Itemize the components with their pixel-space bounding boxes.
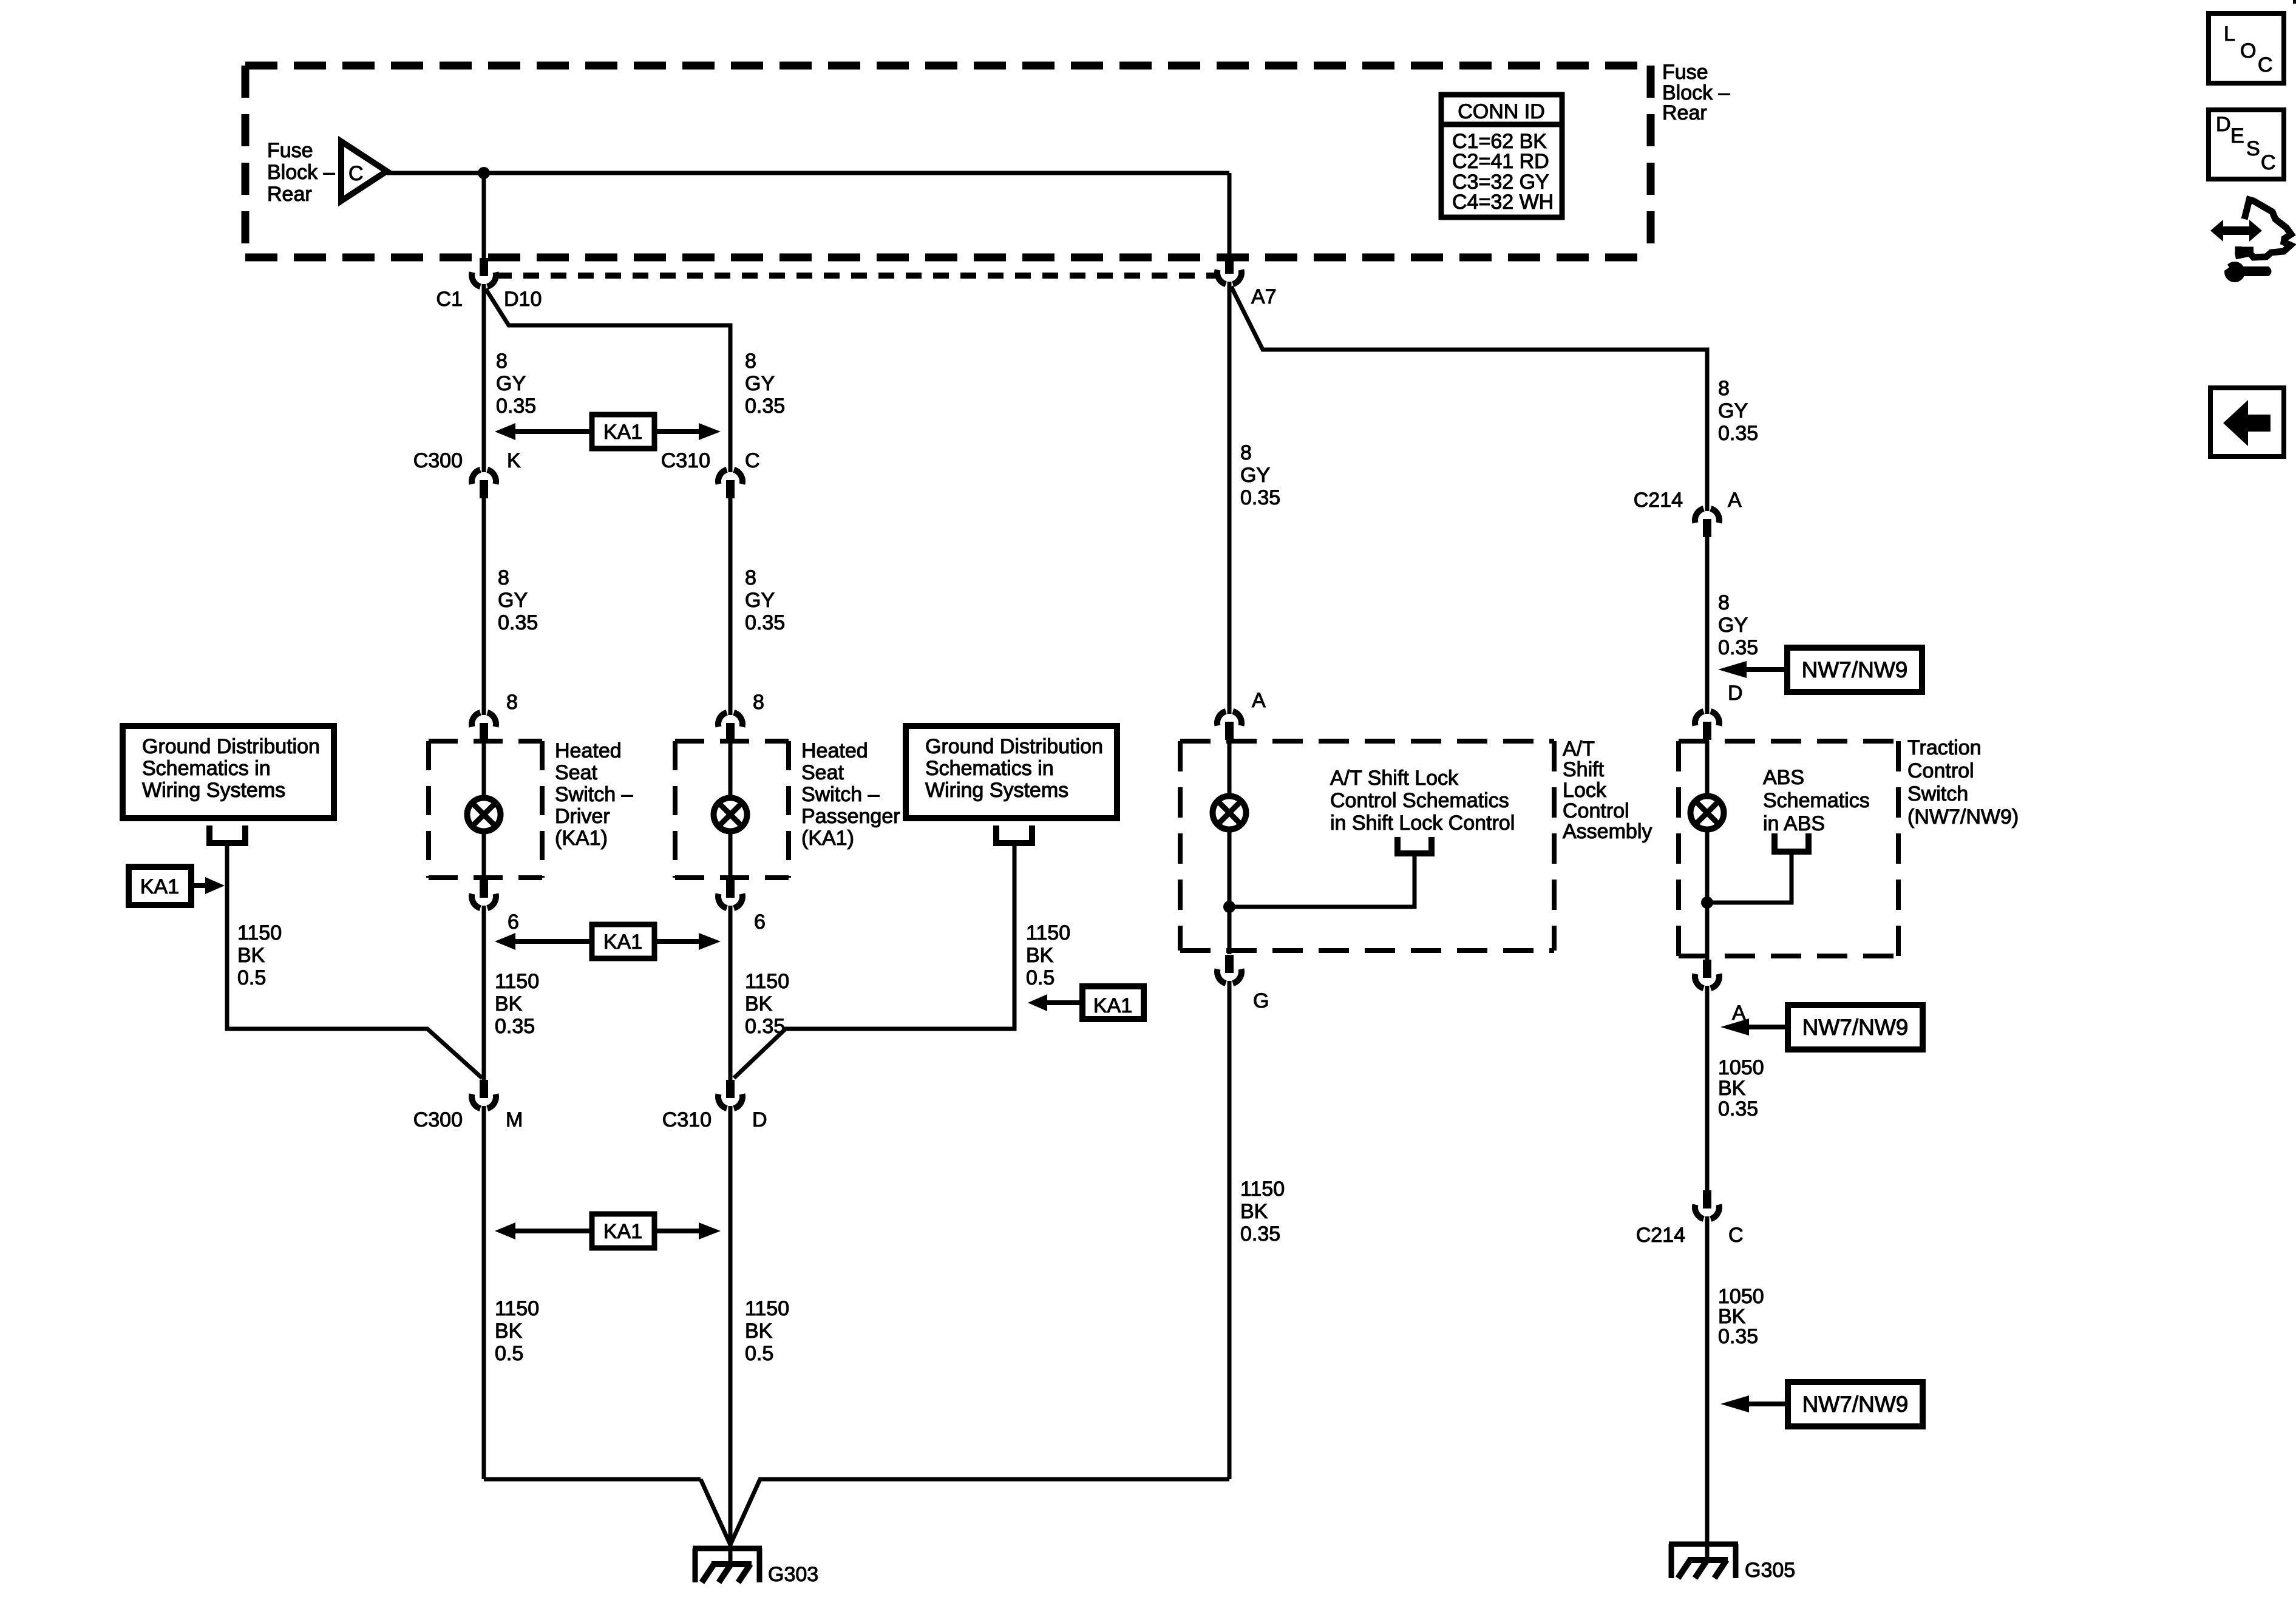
wire bracket to junction (A/T) <box>1229 856 1415 907</box>
svg-text:Control Schematics: Control Schematics <box>1330 789 1509 812</box>
label 1050 BK 0.35 (traction ground lower) <box>1718 1285 1764 1348</box>
svg-text:1150: 1150 <box>1240 1178 1285 1201</box>
wire C300 K to driver switch pin 8 <box>482 498 486 715</box>
svg-text:8: 8 <box>745 566 756 589</box>
svg-text:GY: GY <box>496 372 526 395</box>
svg-text:8: 8 <box>1718 377 1730 400</box>
svg-text:BK: BK <box>1240 1200 1268 1223</box>
bracket under left GD box <box>206 825 248 843</box>
wire inside A/T box (lamp to bottom) <box>1228 829 1232 954</box>
svg-text:0.5: 0.5 <box>745 1342 773 1365</box>
svg-text:Traction: Traction <box>1907 736 1982 759</box>
svg-text:1150: 1150 <box>745 970 789 993</box>
svg-text:BK: BK <box>1026 944 1054 967</box>
label 8 GY 0.35 (driver feed lower) <box>498 566 538 634</box>
svg-text:6: 6 <box>508 910 519 934</box>
wire branch D10 to passenger drop <box>486 289 730 472</box>
svg-text:S: S <box>2246 137 2260 160</box>
svg-text:0.35: 0.35 <box>495 1015 535 1038</box>
label C214 (A row) <box>1634 489 1683 512</box>
svg-text:Schematics: Schematics <box>1763 789 1870 812</box>
splice KA1 (middle) <box>495 924 721 958</box>
wire A/T G to ground bus <box>1228 981 1232 1479</box>
junction node on feed wire <box>478 167 490 179</box>
connector pin G A/T assembly <box>1217 955 1241 983</box>
reference KA1 (right) <box>1028 986 1144 1019</box>
label pin 6 (passenger) <box>754 910 766 934</box>
connector C310 pin D <box>718 1080 742 1108</box>
label 1150 BK 0.5 (driver ground lower) <box>495 1297 539 1365</box>
page corner mark <box>2293 0 2296 4</box>
svg-text:0.35: 0.35 <box>1718 422 1758 445</box>
label A/T Shift Lock Control Schematics in Shift Lock Control <box>1330 767 1515 835</box>
wire C214 C to G305 <box>1705 1216 1710 1561</box>
label Traction Control Switch (NW7/NW9) <box>1907 736 2019 829</box>
svg-text:NW7/NW9: NW7/NW9 <box>1802 1392 1909 1417</box>
svg-text:1150: 1150 <box>495 970 539 993</box>
label pin 6 (driver) <box>508 910 519 934</box>
svg-text:NW7/NW9: NW7/NW9 <box>1802 1015 1909 1040</box>
reference box Ground Distribution (right) <box>906 726 1117 818</box>
connector C1 pin D10 <box>472 258 496 286</box>
svg-text:Rear: Rear <box>267 183 312 206</box>
label 1150 BK 0.5 (right GD wire) <box>1026 921 1070 989</box>
svg-text:A: A <box>1728 489 1742 512</box>
svg-text:Lock: Lock <box>1563 779 1607 802</box>
connector pin A traction switch <box>1695 960 1719 988</box>
wire branch A7 to traction drop <box>1231 286 1707 511</box>
label 8 GY 0.35 (traction feed upper) <box>1718 377 1758 445</box>
connector C214 pin C <box>1695 1190 1719 1219</box>
svg-text:C310: C310 <box>661 449 710 472</box>
label 8 GY 0.35 (passenger feed upper) <box>745 350 785 418</box>
wire inside passenger switch (top) <box>729 741 733 799</box>
junction node A/T <box>1223 901 1235 913</box>
svg-text:NW7/NW9: NW7/NW9 <box>1802 657 1908 682</box>
bracket under right GD box <box>993 825 1035 843</box>
indicator lamp passenger switch <box>714 798 747 832</box>
svg-text:0.5: 0.5 <box>1026 966 1055 989</box>
svg-text:1150: 1150 <box>495 1297 539 1320</box>
svg-text:6: 6 <box>754 910 766 934</box>
label K <box>507 449 521 472</box>
svg-text:8: 8 <box>1240 441 1252 464</box>
svg-text:Fuse: Fuse <box>267 139 313 162</box>
label C1 <box>436 288 463 311</box>
svg-text:BK: BK <box>495 992 523 1015</box>
label C310 (C row) <box>661 449 710 472</box>
label 1150 BK 0.35 (A/T ground) <box>1240 1178 1285 1246</box>
wire driver pin 6 to C300 M <box>482 906 486 1080</box>
svg-text:D: D <box>752 1108 767 1131</box>
connector C300 pin K <box>472 470 496 498</box>
wire C214 A to traction pin D <box>1705 537 1710 714</box>
svg-text:E: E <box>2230 124 2244 147</box>
svg-text:C214: C214 <box>1636 1224 1685 1247</box>
wire inside A/T box (top) <box>1228 741 1232 797</box>
svg-text:Seat: Seat <box>801 761 844 784</box>
svg-text:8: 8 <box>753 691 764 714</box>
label 1150 BK 0.5 (left GD wire) <box>237 921 282 989</box>
icon back arrow button <box>2210 388 2284 456</box>
svg-text:C1: C1 <box>436 288 463 311</box>
svg-text:0.5: 0.5 <box>495 1342 523 1365</box>
label pin 8 (passenger switch) <box>753 691 764 714</box>
svg-text:8: 8 <box>498 566 509 589</box>
svg-text:8: 8 <box>745 350 756 373</box>
label A/T Shift Lock Control Assembly <box>1563 737 1652 843</box>
ground G303 <box>693 1548 762 1582</box>
svg-text:0.35: 0.35 <box>1240 1222 1280 1246</box>
svg-text:K: K <box>507 449 521 472</box>
svg-text:(KA1): (KA1) <box>555 827 608 850</box>
svg-text:O: O <box>2240 39 2256 63</box>
svg-text:M: M <box>506 1108 523 1131</box>
bracket A/T schematic reference <box>1394 837 1435 853</box>
wire A7 to A/T pin A <box>1228 282 1232 714</box>
indicator lamp driver switch <box>467 798 501 832</box>
svg-text:C: C <box>745 449 760 472</box>
label C214 (C row) <box>1636 1224 1685 1247</box>
svg-text:Schematics in: Schematics in <box>142 757 271 780</box>
svg-text:Heated: Heated <box>555 739 622 762</box>
fuse output terminal C (triangle) <box>341 141 387 201</box>
svg-text:(NW7/NW9): (NW7/NW9) <box>1907 805 2019 829</box>
icon DESC button <box>2209 110 2284 179</box>
label D10 <box>504 288 542 311</box>
svg-text:G: G <box>1253 989 1269 1012</box>
wire traction A to C214 C <box>1705 986 1710 1191</box>
svg-text:0.35: 0.35 <box>496 395 536 418</box>
wire into G303 <box>729 1481 733 1566</box>
svg-text:G303: G303 <box>768 1563 818 1586</box>
svg-text:D: D <box>2216 113 2231 136</box>
svg-text:BK: BK <box>745 1320 773 1343</box>
svg-text:KA1: KA1 <box>603 931 642 954</box>
connector C214 pin A <box>1695 509 1719 537</box>
connector C310 pin C <box>718 470 742 498</box>
wire inside traction box (top) <box>1705 741 1710 797</box>
svg-text:KA1: KA1 <box>603 1220 642 1243</box>
svg-text:0.35: 0.35 <box>1718 1325 1758 1348</box>
connector A7 <box>1217 256 1241 284</box>
svg-text:KA1: KA1 <box>1093 994 1132 1017</box>
svg-text:Schematics in: Schematics in <box>925 757 1054 780</box>
svg-text:C: C <box>348 162 364 185</box>
icon connector repair (glove, arrow, wrench) <box>2210 200 2291 282</box>
svg-text:BK: BK <box>1718 1077 1746 1100</box>
svg-text:0.35: 0.35 <box>1240 486 1280 509</box>
svg-text:Shift: Shift <box>1563 758 1605 781</box>
svg-text:GY: GY <box>1240 464 1270 487</box>
label C300 (M row) <box>413 1108 463 1131</box>
svg-text:C: C <box>1728 1224 1744 1247</box>
svg-text:in Shift Lock Control: in Shift Lock Control <box>1330 812 1515 835</box>
wire inside driver switch (bottom) <box>482 830 486 881</box>
label 8 GY 0.35 (passenger feed lower) <box>745 566 785 634</box>
label 8 GY 0.35 (traction feed lower) <box>1718 591 1758 659</box>
svg-text:C300: C300 <box>413 449 463 472</box>
wire bracket to junction (traction) <box>1707 855 1792 903</box>
svg-text:C310: C310 <box>662 1108 712 1131</box>
indicator lamp traction switch <box>1691 796 1724 830</box>
svg-text:C2=41 RD: C2=41 RD <box>1452 150 1549 173</box>
svg-text:BK: BK <box>745 992 773 1015</box>
fuse block connector face (dotted line) <box>496 273 1216 279</box>
label A (traction bottom pin) <box>1732 1002 1746 1025</box>
svg-text:D: D <box>1728 682 1743 705</box>
svg-text:0.35: 0.35 <box>745 395 785 418</box>
svg-text:Switch –: Switch – <box>801 783 880 806</box>
label G305 <box>1745 1559 1795 1582</box>
svg-text:Wiring Systems: Wiring Systems <box>142 779 285 802</box>
svg-text:GY: GY <box>498 589 528 612</box>
wire right GD to C310 D <box>734 846 1014 1078</box>
svg-text:KA1: KA1 <box>603 421 642 444</box>
splice KA1 (upper) <box>495 415 721 449</box>
label 1050 BK 0.35 (traction ground upper) <box>1718 1056 1764 1120</box>
label G303 <box>768 1563 818 1586</box>
fuse block dashed box (Fuse Block - Rear) <box>245 66 1651 257</box>
wire inside passenger switch (bottom) <box>729 830 733 881</box>
heated seat switch passenger dashed box <box>675 741 789 878</box>
junction node traction <box>1701 897 1713 909</box>
svg-text:BK: BK <box>495 1320 523 1343</box>
ground G305 <box>1669 1544 1738 1578</box>
label 1150 BK 0.35 (passenger ground upper) <box>745 970 789 1038</box>
label D (traction pin) <box>1728 682 1743 705</box>
label 1150 BK 0.5 (passenger ground lower) <box>745 1297 789 1365</box>
wire left GD to C300 M <box>227 846 482 1078</box>
harness reference NW7/NW9 (upper) <box>1718 648 1922 692</box>
wire C310 D down to ground apex <box>729 1106 733 1481</box>
svg-text:Driver: Driver <box>555 805 610 828</box>
connector pin 6 driver switch <box>472 880 496 908</box>
label ABS Schematics in ABS <box>1763 766 1870 835</box>
feed wire from fuse C <box>387 171 1229 175</box>
harness reference NW7/NW9 (middle) <box>1720 1005 1923 1049</box>
label Fuse Block - Rear (outside right) <box>1662 61 1730 124</box>
wire feed drop to C1 <box>482 173 486 261</box>
traction control switch dashed box <box>1679 741 1898 956</box>
svg-text:GY: GY <box>1718 614 1748 637</box>
svg-text:Switch: Switch <box>1907 782 1968 805</box>
label C (C214 pin) <box>1728 1224 1744 1247</box>
svg-text:C4=32 WH: C4=32 WH <box>1452 191 1554 214</box>
wire inside traction box (lamp to bottom) <box>1705 829 1710 960</box>
label C310 (D row) <box>662 1108 712 1131</box>
icon LOC button <box>2209 13 2284 83</box>
label C300 (K row) <box>413 449 463 472</box>
label A (A/T pin) <box>1252 689 1266 712</box>
svg-text:Ground Distribution: Ground Distribution <box>142 735 320 758</box>
label D (C310 pin) <box>752 1108 767 1131</box>
label Fuse Block - Rear (inside box) <box>267 139 335 206</box>
wire inside driver switch (top) <box>482 741 486 799</box>
svg-text:D10: D10 <box>504 288 542 311</box>
svg-text:C: C <box>2258 53 2273 76</box>
svg-text:1150: 1150 <box>237 921 282 944</box>
harness reference NW7/NW9 (lower) <box>1720 1382 1923 1426</box>
svg-text:CONN ID: CONN ID <box>1458 100 1545 123</box>
svg-text:Ground Distribution: Ground Distribution <box>925 735 1103 758</box>
connector pin 8 driver switch <box>472 713 496 741</box>
label pin 8 (driver switch) <box>506 691 518 714</box>
svg-text:in ABS: in ABS <box>1763 812 1825 835</box>
svg-text:GY: GY <box>745 372 775 395</box>
svg-text:G305: G305 <box>1745 1559 1795 1582</box>
svg-text:GY: GY <box>745 589 775 612</box>
svg-text:Heated: Heated <box>801 739 868 762</box>
reference box Ground Distribution (left) <box>123 726 334 818</box>
svg-text:BK: BK <box>237 944 265 967</box>
svg-text:8: 8 <box>506 691 518 714</box>
svg-text:ABS: ABS <box>1763 766 1804 789</box>
svg-text:0.35: 0.35 <box>498 611 538 634</box>
wire passenger pin 6 to C310 D <box>729 906 733 1080</box>
label 1150 BK 0.35 (driver ground upper) <box>495 970 539 1038</box>
svg-text:1150: 1150 <box>1026 921 1070 944</box>
splice KA1 (lower) <box>495 1214 721 1248</box>
label Heated Seat Switch - Passenger (KA1) <box>801 739 900 850</box>
svg-text:L: L <box>2224 22 2235 46</box>
svg-text:Switch –: Switch – <box>555 783 633 806</box>
svg-text:Control: Control <box>1563 799 1629 822</box>
svg-text:A/T Shift Lock: A/T Shift Lock <box>1330 767 1459 790</box>
wire feed drop to A7 <box>1228 173 1232 259</box>
svg-text:KA1: KA1 <box>140 875 179 898</box>
svg-text:A7: A7 <box>1251 285 1277 308</box>
connector pin 6 passenger switch <box>718 880 742 908</box>
svg-text:Control: Control <box>1907 759 1974 782</box>
svg-text:8: 8 <box>1718 591 1730 614</box>
label A7 <box>1251 285 1277 308</box>
label 8 GY 0.35 (A/T feed) <box>1240 441 1280 509</box>
connector pin A A/T assembly <box>1217 711 1241 740</box>
label M <box>506 1108 523 1131</box>
label G <box>1253 989 1269 1012</box>
ground collector bus wire <box>484 1479 1229 1545</box>
svg-text:(KA1): (KA1) <box>801 827 854 850</box>
heated seat switch driver dashed box <box>429 741 542 878</box>
wire C300 M down <box>482 1106 486 1479</box>
svg-text:8: 8 <box>496 350 508 373</box>
svg-text:0.35: 0.35 <box>745 611 785 634</box>
connector C300 pin M <box>472 1080 496 1108</box>
svg-text:C: C <box>2261 151 2276 174</box>
connector pin 8 passenger switch <box>718 713 742 741</box>
svg-text:0.35: 0.35 <box>1718 636 1758 659</box>
svg-text:0.5: 0.5 <box>237 966 266 989</box>
bracket ABS schematic reference <box>1771 833 1812 852</box>
CONN ID table <box>1441 95 1562 217</box>
wire C310 C to passenger switch pin 8 <box>729 498 733 715</box>
svg-text:GY: GY <box>1718 399 1748 422</box>
wire C1 to C300 K <box>482 284 486 472</box>
svg-text:Fuse: Fuse <box>1662 61 1708 84</box>
label Heated Seat Switch - Driver (KA1) <box>555 739 633 850</box>
svg-text:A: A <box>1252 689 1266 712</box>
svg-text:0.35: 0.35 <box>1718 1097 1758 1120</box>
indicator lamp A/T assembly <box>1213 796 1246 830</box>
A/T shift lock control assembly dashed box <box>1180 741 1554 951</box>
svg-text:1050: 1050 <box>1718 1056 1764 1079</box>
connector pin D traction switch <box>1695 711 1719 740</box>
svg-text:Assembly: Assembly <box>1563 820 1652 843</box>
svg-text:Wiring Systems: Wiring Systems <box>925 779 1068 802</box>
label C (C310 pin) <box>745 449 760 472</box>
svg-text:A/T: A/T <box>1563 737 1595 761</box>
label A (C214) <box>1728 489 1742 512</box>
svg-text:C214: C214 <box>1634 489 1683 512</box>
svg-text:Block –: Block – <box>267 161 335 184</box>
svg-text:Rear: Rear <box>1662 101 1707 124</box>
reference KA1 (left) <box>129 867 225 905</box>
label 8 GY 0.35 (driver feed upper) <box>496 350 536 418</box>
svg-text:Seat: Seat <box>555 761 597 784</box>
svg-text:1150: 1150 <box>745 1297 789 1320</box>
svg-text:Passenger: Passenger <box>801 805 900 828</box>
svg-text:C300: C300 <box>413 1108 463 1131</box>
